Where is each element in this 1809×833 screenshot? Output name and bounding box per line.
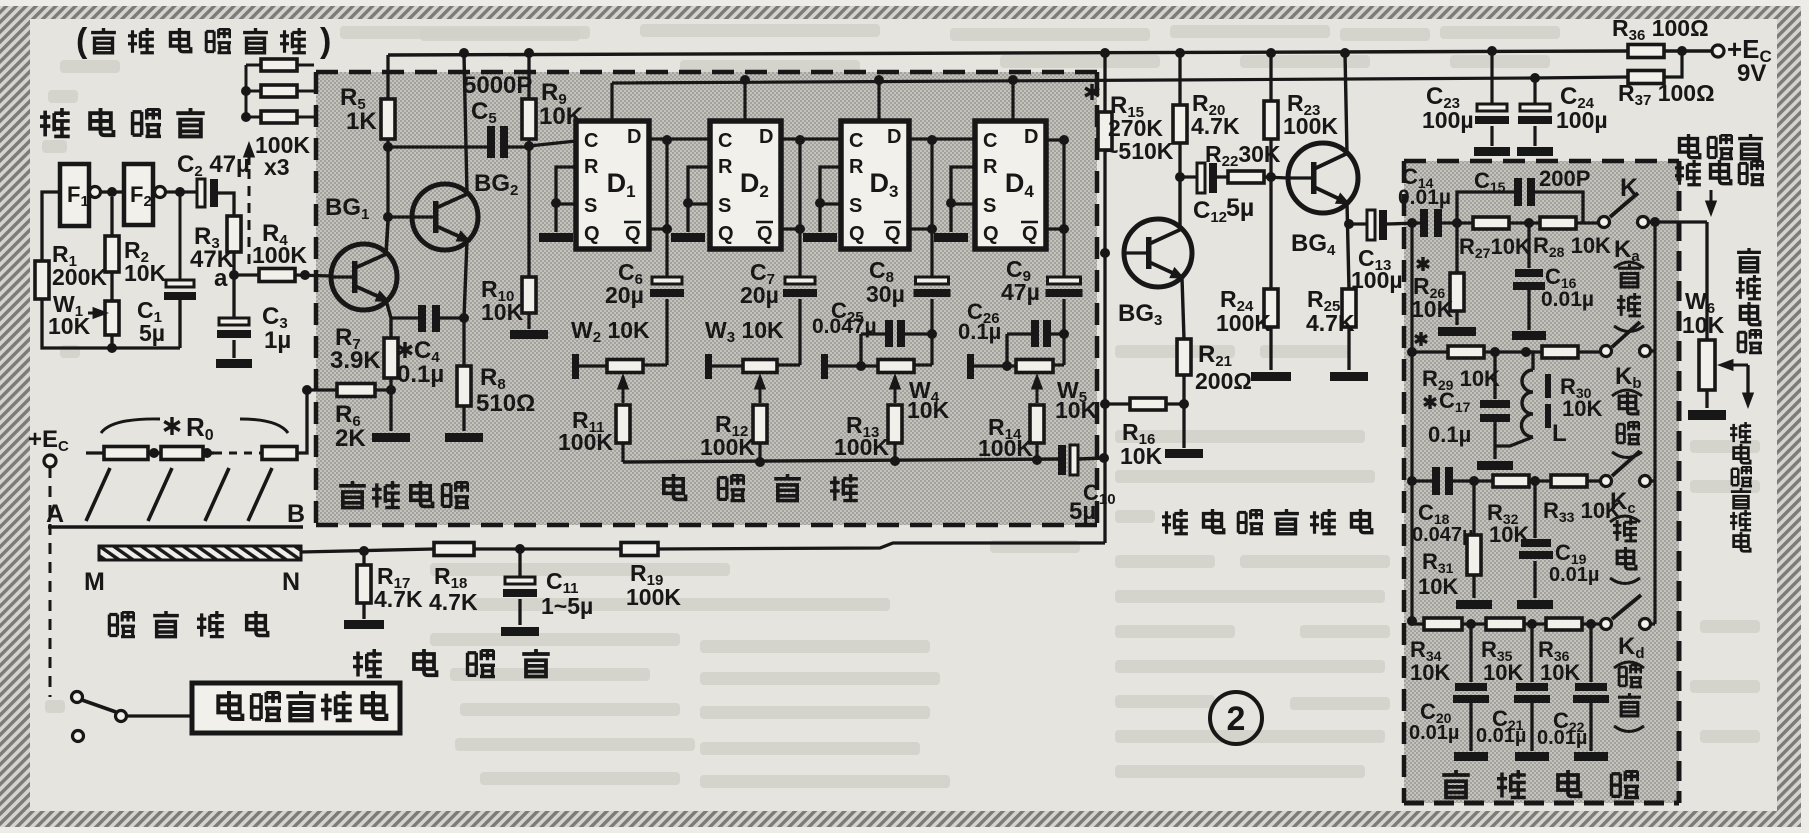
svg-text:C: C — [718, 130, 732, 152]
svg-text:D: D — [627, 126, 641, 148]
svg-text:C2 47µ: C2 47µ — [177, 151, 250, 180]
svg-text:10K: 10K — [1483, 660, 1523, 685]
svg-text:S: S — [849, 195, 862, 217]
svg-text:5µ: 5µ — [1226, 194, 1254, 222]
svg-text:100µ: 100µ — [1351, 267, 1403, 293]
svg-text:0.01µ: 0.01µ — [1541, 288, 1594, 311]
svg-text:100K: 100K — [834, 434, 889, 460]
svg-text:C: C — [584, 130, 598, 152]
svg-text:4.7K: 4.7K — [429, 589, 478, 615]
svg-text:C: C — [849, 130, 863, 152]
svg-text:W3 10K: W3 10K — [705, 317, 784, 346]
svg-text:510Ω: 510Ω — [476, 390, 535, 417]
svg-text:100µ: 100µ — [1556, 107, 1608, 133]
svg-text:10K: 10K — [1562, 396, 1602, 421]
svg-text:1µ: 1µ — [264, 327, 291, 354]
svg-text:L: L — [1552, 420, 1567, 447]
svg-text:R37 100Ω: R37 100Ω — [1618, 80, 1715, 109]
svg-text:4.7K: 4.7K — [374, 586, 423, 612]
svg-text:R: R — [983, 156, 998, 178]
svg-text:0.1µ: 0.1µ — [397, 361, 444, 388]
svg-text:100K: 100K — [558, 429, 613, 455]
svg-text:20µ: 20µ — [740, 282, 779, 308]
svg-text:R29 10K: R29 10K — [1422, 366, 1500, 393]
svg-text:~510K: ~510K — [1105, 138, 1174, 164]
svg-text:0.047µ: 0.047µ — [812, 315, 877, 338]
svg-text:D: D — [887, 126, 901, 148]
svg-text:0.01µ: 0.01µ — [1476, 725, 1526, 747]
svg-text:K: K — [1620, 174, 1638, 202]
svg-text:Q: Q — [625, 223, 641, 245]
svg-text:30µ: 30µ — [866, 281, 905, 307]
svg-text:10K: 10K — [1120, 443, 1163, 469]
svg-text:R: R — [584, 156, 599, 178]
svg-text:20µ: 20µ — [605, 282, 644, 308]
svg-text:C: C — [983, 130, 997, 152]
svg-text:0.01µ: 0.01µ — [1398, 186, 1451, 209]
svg-text:R2710K: R2710K — [1459, 234, 1531, 261]
svg-text:2K: 2K — [335, 425, 366, 452]
svg-text:A: A — [46, 500, 64, 528]
svg-text:R36 100Ω: R36 100Ω — [1612, 15, 1709, 44]
svg-text:Q: Q — [983, 223, 999, 245]
svg-text:Q: Q — [584, 223, 600, 245]
svg-text:10K: 10K — [48, 313, 91, 339]
svg-text:(: ( — [76, 22, 88, 60]
svg-text:Q: Q — [757, 223, 773, 245]
svg-text:200P: 200P — [1539, 166, 1590, 191]
svg-text:D: D — [759, 126, 773, 148]
svg-text:10K: 10K — [1055, 397, 1098, 423]
svg-text:9V: 9V — [1737, 60, 1766, 87]
svg-text:100K: 100K — [978, 435, 1033, 461]
svg-text:0.1µ: 0.1µ — [1428, 422, 1471, 447]
svg-text:10K: 10K — [1418, 574, 1458, 599]
svg-text:Q: Q — [718, 223, 734, 245]
svg-text:0.01µ: 0.01µ — [1537, 727, 1587, 749]
svg-text:0.047µ: 0.047µ — [1412, 524, 1474, 546]
svg-text:200Ω: 200Ω — [1195, 368, 1252, 394]
svg-text:5000P: 5000P — [463, 72, 532, 99]
svg-text:2: 2 — [1227, 700, 1246, 738]
svg-text:100K: 100K — [1216, 310, 1271, 336]
svg-text:47K: 47K — [190, 246, 235, 273]
svg-text:3.9K: 3.9K — [330, 347, 381, 374]
svg-text:10K: 10K — [1410, 660, 1450, 685]
svg-text:S: S — [983, 195, 996, 217]
svg-text:10K: 10K — [481, 299, 524, 325]
svg-text:100K: 100K — [626, 584, 681, 610]
svg-text:): ) — [320, 22, 331, 60]
svg-text:R28 10K: R28 10K — [1533, 233, 1611, 260]
svg-text:W2 10K: W2 10K — [571, 317, 650, 346]
svg-text:Q: Q — [849, 223, 865, 245]
svg-text:100K: 100K — [1283, 113, 1338, 139]
svg-text:0.01µ: 0.01µ — [1409, 722, 1459, 744]
svg-text:Q: Q — [885, 223, 901, 245]
svg-text:5µ: 5µ — [139, 320, 165, 346]
svg-text:10K: 10K — [1540, 660, 1580, 685]
svg-text:S: S — [584, 195, 597, 217]
svg-text:R: R — [849, 156, 864, 178]
svg-text:10K: 10K — [1682, 312, 1725, 338]
svg-text:100K: 100K — [252, 242, 307, 268]
svg-text:10K: 10K — [124, 260, 167, 286]
svg-text:N: N — [282, 568, 300, 596]
svg-text:47µ: 47µ — [1001, 279, 1040, 305]
svg-text:200K: 200K — [52, 264, 107, 290]
svg-text:0.1µ: 0.1µ — [958, 319, 1001, 344]
svg-text:1K: 1K — [346, 108, 377, 135]
svg-text:10K: 10K — [907, 397, 950, 423]
svg-text:M: M — [84, 568, 105, 596]
svg-text:5µ: 5µ — [1069, 498, 1096, 525]
svg-text:x3: x3 — [264, 154, 290, 180]
svg-text:D: D — [1024, 126, 1038, 148]
svg-text:0.01µ: 0.01µ — [1549, 564, 1599, 586]
svg-text:10K: 10K — [1411, 296, 1454, 322]
svg-text:4.7K: 4.7K — [1306, 310, 1355, 336]
svg-text:4.7K: 4.7K — [1191, 113, 1240, 139]
svg-text:S: S — [718, 195, 731, 217]
svg-text:R: R — [718, 156, 733, 178]
svg-text:100K: 100K — [700, 434, 755, 460]
svg-text:Q: Q — [1022, 223, 1038, 245]
svg-text:100µ: 100µ — [1422, 107, 1474, 133]
svg-text:B: B — [287, 500, 305, 528]
svg-text:1~5µ: 1~5µ — [541, 593, 593, 619]
